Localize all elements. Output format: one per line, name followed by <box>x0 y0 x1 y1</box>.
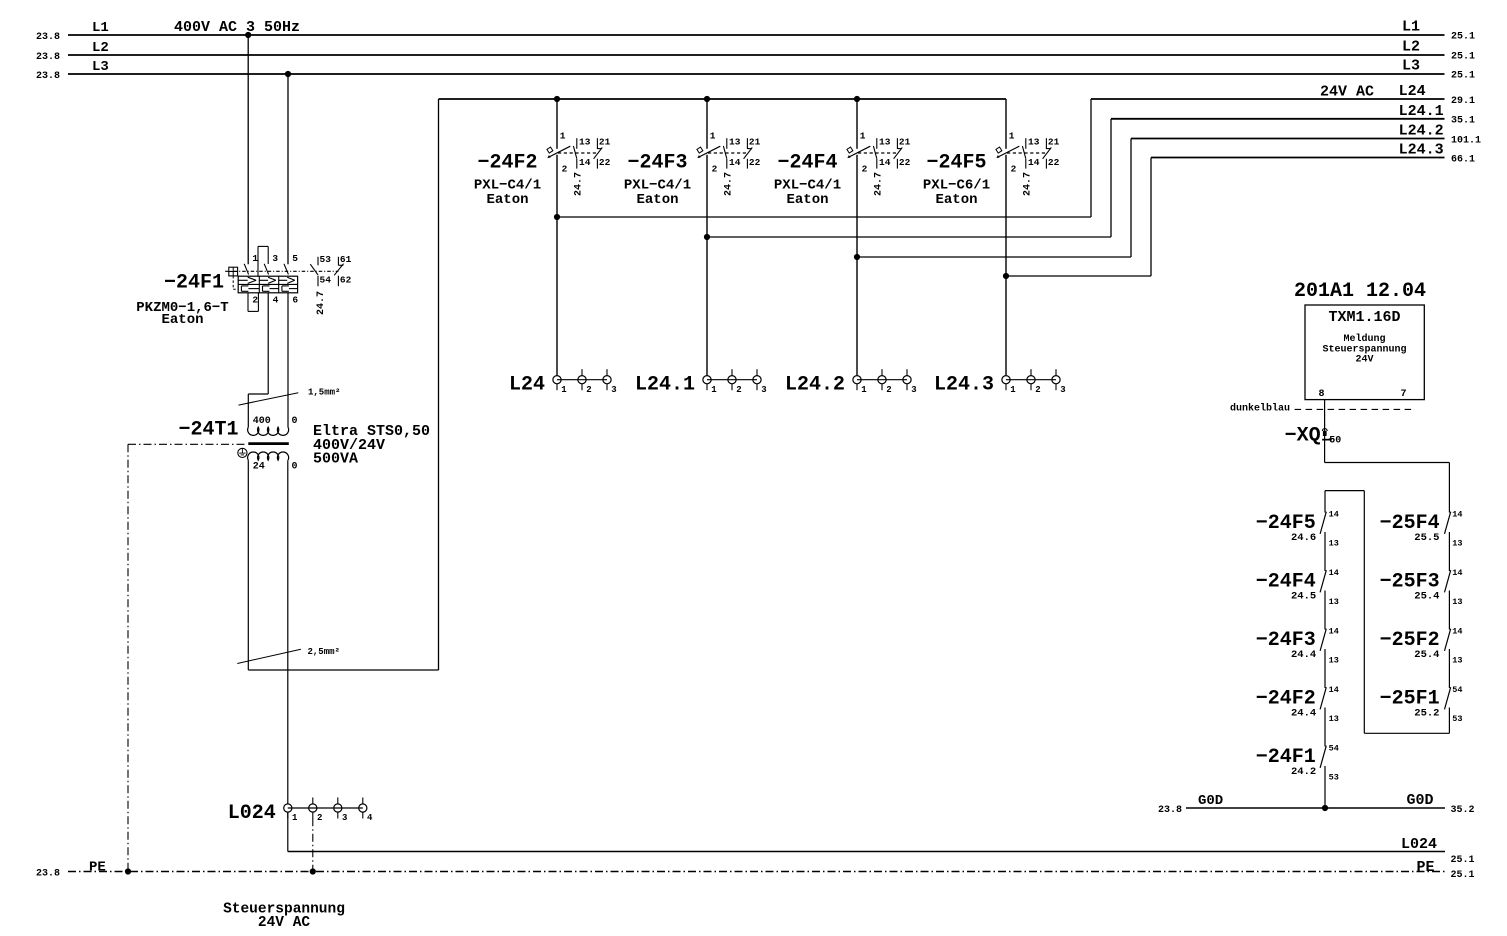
svg-text:35.2: 35.2 <box>1451 805 1475 816</box>
svg-text:25.5: 25.5 <box>1414 532 1439 544</box>
wire chain connector U <box>1325 491 1449 734</box>
svg-text:1: 1 <box>711 385 717 395</box>
wire -24F1 pole6 to primary <box>287 293 289 427</box>
net L24 rail <box>1091 83 1475 217</box>
svg-text:1: 1 <box>561 385 567 395</box>
svg-text:L2: L2 <box>1402 38 1420 55</box>
svg-text:24.6: 24.6 <box>1291 532 1316 544</box>
svg-text:13: 13 <box>1329 597 1339 607</box>
svg-text:22: 22 <box>899 157 911 168</box>
svg-text:Eaton: Eaton <box>486 192 528 208</box>
svg-text:101.1: 101.1 <box>1451 135 1481 146</box>
svg-text:14: 14 <box>579 157 591 168</box>
svg-text:1: 1 <box>861 385 867 395</box>
svg-text:25.4: 25.4 <box>1414 649 1439 661</box>
cable cross-section 2,5mm2 <box>237 647 340 664</box>
svg-text:24.4: 24.4 <box>1291 649 1316 661</box>
svg-text:2: 2 <box>317 813 322 823</box>
svg-text:22: 22 <box>1048 157 1060 168</box>
svg-text:21: 21 <box>599 137 611 148</box>
svg-text:22: 22 <box>599 157 611 168</box>
svg-text:0: 0 <box>292 461 298 472</box>
svg-text:1: 1 <box>1009 131 1015 142</box>
net L24.2 rail <box>1131 123 1481 257</box>
aux contact −24F3 <box>1256 627 1339 666</box>
net L24.1 rail <box>1111 103 1475 237</box>
svg-text:L24.1: L24.1 <box>635 374 695 397</box>
svg-text:25.1: 25.1 <box>1451 71 1475 82</box>
svg-text:1: 1 <box>860 131 866 142</box>
svg-text:Eaton: Eaton <box>786 192 828 208</box>
svg-text:2: 2 <box>586 385 591 395</box>
svg-text:23.8: 23.8 <box>36 71 60 82</box>
svg-text:53: 53 <box>1329 772 1339 782</box>
svg-text:2: 2 <box>886 385 891 395</box>
svg-text:4: 4 <box>367 813 373 823</box>
svg-text:2: 2 <box>862 163 868 174</box>
svg-text:21: 21 <box>749 137 761 148</box>
svg-text:14: 14 <box>1028 157 1040 168</box>
svg-text:35.1: 35.1 <box>1451 116 1475 127</box>
svg-text:14: 14 <box>1329 627 1339 637</box>
svg-text:Eaton: Eaton <box>636 192 678 208</box>
svg-text:L24.2: L24.2 <box>1399 123 1444 140</box>
svg-text:L24.3: L24.3 <box>934 374 994 397</box>
aux contact −24F5 <box>1256 510 1339 549</box>
svg-text:L24: L24 <box>509 374 545 397</box>
svg-text:400: 400 <box>253 416 271 427</box>
net L024 rail <box>288 836 1475 866</box>
svg-text:14: 14 <box>1452 568 1462 578</box>
svg-text:L24.1: L24.1 <box>1399 103 1444 120</box>
svg-text:2: 2 <box>712 163 718 174</box>
wire 24V AC bus <box>439 96 1007 102</box>
svg-text:66.1: 66.1 <box>1451 154 1475 165</box>
svg-text:−24F2: −24F2 <box>477 152 537 175</box>
svg-text:25.1: 25.1 <box>1451 52 1475 63</box>
wire PE dash-dot to transformer earth <box>128 444 247 871</box>
svg-text:24V AC: 24V AC <box>1320 84 1374 101</box>
svg-text:Meldung: Meldung <box>1343 333 1385 345</box>
svg-text:L024: L024 <box>228 802 276 825</box>
svg-text:L24.3: L24.3 <box>1399 142 1444 159</box>
aux contact −25F1 <box>1380 685 1463 724</box>
svg-text:1: 1 <box>252 253 258 264</box>
aux contact 53/54 -24F1 <box>310 254 331 286</box>
wire -24F1 pole4 to primary <box>248 293 268 427</box>
svg-text:21: 21 <box>1048 137 1060 148</box>
wire L024 terminal 2 PE dash-dot <box>312 818 314 871</box>
svg-text:−24F4: −24F4 <box>777 152 837 175</box>
svg-text:24V AC: 24V AC <box>258 915 311 931</box>
svg-text:2: 2 <box>1011 163 1017 174</box>
wire XQ1 to right chain <box>1325 463 1450 513</box>
svg-text:13: 13 <box>1452 538 1462 548</box>
svg-text:13: 13 <box>1329 538 1339 548</box>
svg-text:13: 13 <box>879 137 891 148</box>
aux contact −25F3 <box>1380 568 1463 607</box>
svg-text:14: 14 <box>1452 510 1462 520</box>
label dunkelblau <box>1230 402 1416 414</box>
svg-text:14: 14 <box>1329 568 1339 578</box>
svg-text:3: 3 <box>342 813 347 823</box>
terminal strip L24 <box>509 369 617 396</box>
svg-text:G0D: G0D <box>1407 792 1434 809</box>
breaker −24F2 PXL−C4/1 Eaton <box>474 99 611 375</box>
svg-text:PE: PE <box>89 859 106 875</box>
svg-text:25.1: 25.1 <box>1451 855 1475 866</box>
svg-text:25.1: 25.1 <box>1451 870 1475 881</box>
device box TXM1.16D <box>1305 305 1424 400</box>
svg-text:G0D: G0D <box>1198 793 1223 809</box>
connector -XQ1 pin 50 <box>1285 424 1342 447</box>
svg-text:500VA: 500VA <box>313 451 358 468</box>
terminal strip L024 <box>228 798 373 825</box>
svg-text:2: 2 <box>736 385 741 395</box>
svg-text:14: 14 <box>729 157 741 168</box>
svg-text:25.1: 25.1 <box>1451 32 1475 43</box>
svg-text:24: 24 <box>253 461 265 472</box>
cable cross-section 1,5mm2 <box>239 387 341 405</box>
svg-text:L1: L1 <box>1402 18 1420 35</box>
svg-text:L24: L24 <box>1399 83 1426 100</box>
aux contact −25F2 <box>1380 627 1463 666</box>
svg-text:61: 61 <box>340 254 352 265</box>
svg-text:2: 2 <box>562 163 568 174</box>
svg-text:−24T1: −24T1 <box>178 418 238 441</box>
svg-text:6: 6 <box>292 294 298 305</box>
svg-text:3: 3 <box>911 385 916 395</box>
svg-text:54: 54 <box>320 275 332 286</box>
svg-text:Eaton: Eaton <box>161 312 203 328</box>
label Steuerspannung 24V AC <box>223 901 345 931</box>
svg-text:1: 1 <box>1010 385 1016 395</box>
breaker −24F3 PXL−C4/1 Eaton <box>624 99 761 375</box>
aux contact 61/62 -24F1 <box>334 254 351 286</box>
aux contact −24F4 <box>1256 568 1339 607</box>
terminal strip L24.3 <box>934 369 1066 396</box>
label Eltra STS0,50 400V/24V 500VA <box>313 423 430 468</box>
mechanical linkage dash-dot -24F1 <box>225 270 338 272</box>
svg-text:PE: PE <box>1417 859 1435 876</box>
svg-text:L3: L3 <box>1402 57 1420 74</box>
svg-text:24.4: 24.4 <box>1291 708 1316 720</box>
svg-text:24.7: 24.7 <box>874 172 885 196</box>
svg-text:2: 2 <box>252 294 258 305</box>
aux contact −25F4 <box>1380 510 1463 549</box>
wire right chain -25F4..-25F1 <box>1448 532 1450 733</box>
svg-text:29.1: 29.1 <box>1451 96 1475 107</box>
svg-text:7: 7 <box>1401 389 1407 400</box>
label PKZM0-1,6-T Eaton <box>136 300 228 328</box>
svg-text:24.2: 24.2 <box>1291 766 1316 778</box>
svg-text:14: 14 <box>1452 627 1462 637</box>
svg-text:L1: L1 <box>92 20 109 36</box>
svg-text:24.7: 24.7 <box>1023 172 1034 196</box>
svg-text:dunkelblau: dunkelblau <box>1230 402 1290 414</box>
svg-text:3: 3 <box>272 253 278 264</box>
svg-text:1: 1 <box>560 131 566 142</box>
svg-text:25.4: 25.4 <box>1414 591 1439 603</box>
aux contact −24F2 <box>1256 685 1339 724</box>
svg-text:1,5mm²: 1,5mm² <box>308 387 340 397</box>
svg-text:201A1 12.04: 201A1 12.04 <box>1294 280 1426 303</box>
net G0D rail <box>1158 792 1475 816</box>
wire secondary 24 terminal <box>247 460 249 670</box>
svg-text:24.5: 24.5 <box>1291 591 1316 603</box>
svg-text:62: 62 <box>340 275 352 286</box>
svg-text:24V: 24V <box>1355 355 1373 366</box>
svg-text:Eaton: Eaton <box>935 192 977 208</box>
svg-text:25.2: 25.2 <box>1414 708 1439 720</box>
svg-text:21: 21 <box>899 137 911 148</box>
svg-text:3: 3 <box>1060 385 1065 395</box>
wire L1 drop to -24F1 pole 1 <box>245 32 251 264</box>
svg-text:14: 14 <box>1329 685 1339 695</box>
svg-text:−24F5: −24F5 <box>926 152 986 175</box>
test button -24F1 <box>229 267 238 289</box>
svg-text:L24.2: L24.2 <box>785 374 845 397</box>
wire TXM pin8 down <box>1324 400 1326 463</box>
breaker -24F1 PKZM0-1,6-T <box>238 246 298 311</box>
wire secondary 0 terminal to L024 <box>287 460 289 803</box>
svg-text:13: 13 <box>579 137 591 148</box>
breaker −24F4 PXL−C4/1 Eaton <box>774 99 911 375</box>
svg-text:3: 3 <box>761 385 766 395</box>
svg-text:14: 14 <box>1329 510 1339 520</box>
svg-text:1: 1 <box>292 813 298 823</box>
wire L024 terminal 1 to L024 rail <box>287 813 289 852</box>
svg-text:23.8: 23.8 <box>36 869 60 880</box>
svg-text:2: 2 <box>1035 385 1040 395</box>
svg-text:−24F1: −24F1 <box>164 271 224 294</box>
svg-text:23.8: 23.8 <box>1158 805 1182 816</box>
svg-text:54: 54 <box>1329 744 1339 754</box>
wire riser transformer secondary to bus <box>248 99 438 670</box>
svg-text:24.7: 24.7 <box>574 172 585 196</box>
svg-text:14: 14 <box>879 157 891 168</box>
terminal strip L24.2 <box>785 369 917 396</box>
transformer -24T1 <box>248 416 298 473</box>
wire left chain -24F5..-24F1 <box>1324 491 1326 808</box>
net L3 rail <box>36 57 1475 82</box>
svg-text:53: 53 <box>1452 714 1462 724</box>
earth symbol at -24T1 <box>238 448 247 457</box>
svg-text:54: 54 <box>1452 685 1462 695</box>
svg-text:22: 22 <box>749 157 761 168</box>
net PE rail dash-dot <box>36 859 1475 881</box>
wire breaker output y=257 <box>854 254 1131 260</box>
net L24.3 rail <box>1151 142 1475 276</box>
svg-text:50: 50 <box>1329 435 1341 446</box>
svg-text:0: 0 <box>292 416 298 427</box>
svg-text:23.8: 23.8 <box>36 52 60 63</box>
wire breaker output y=217 <box>554 214 1091 220</box>
svg-text:24.7: 24.7 <box>316 291 327 315</box>
svg-text:8: 8 <box>1318 389 1324 400</box>
svg-text:13: 13 <box>1452 597 1462 607</box>
svg-text:L024: L024 <box>1401 836 1437 853</box>
svg-text:24.7: 24.7 <box>724 172 735 196</box>
svg-text:13: 13 <box>1329 655 1339 665</box>
svg-text:400V AC 3 50Hz: 400V AC 3 50Hz <box>174 19 300 36</box>
svg-text:L3: L3 <box>92 59 109 75</box>
breaker −24F5 PXL−C6/1 Eaton <box>923 99 1060 375</box>
svg-text:23.8: 23.8 <box>36 32 60 43</box>
svg-text:53: 53 <box>320 254 332 265</box>
svg-text:1: 1 <box>710 131 716 142</box>
svg-text:TXM1.16D: TXM1.16D <box>1328 309 1400 326</box>
svg-text:−24F3: −24F3 <box>627 152 687 175</box>
svg-text:3: 3 <box>611 385 616 395</box>
wire L3 drop to -24F1 pole 5 <box>285 71 291 264</box>
svg-text:L2: L2 <box>92 40 109 56</box>
wire breaker output y=237 <box>704 234 1111 240</box>
net L2 rail <box>36 38 1475 63</box>
terminal strip L24.1 <box>635 369 767 396</box>
svg-text:13: 13 <box>1028 137 1040 148</box>
aux contact −24F1 <box>1256 744 1339 783</box>
svg-text:13: 13 <box>729 137 741 148</box>
svg-text:4: 4 <box>273 294 279 305</box>
svg-text:13: 13 <box>1452 655 1462 665</box>
wire breaker output y=276 <box>1003 273 1151 279</box>
net L1 rail <box>36 18 1475 43</box>
svg-text:5: 5 <box>292 253 298 264</box>
svg-text:13: 13 <box>1329 714 1339 724</box>
svg-text:2,5mm²: 2,5mm² <box>308 647 340 657</box>
